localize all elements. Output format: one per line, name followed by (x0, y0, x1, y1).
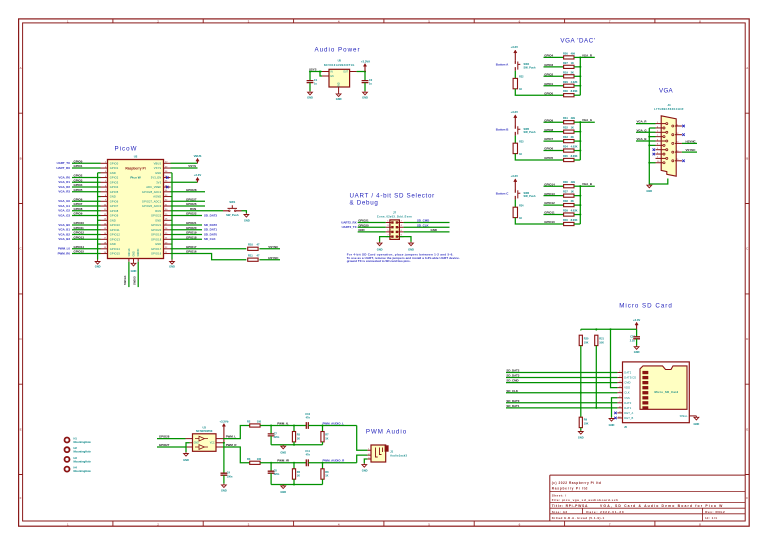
net label GPIO10 (74, 221, 85, 225)
wire tap R7 (322, 426, 324, 432)
wire PWM_AUDIO_L to jack (357, 426, 368, 451)
module U2 Raspberry Pi Pico W body (108, 160, 164, 259)
svg-text:GPIO0: GPIO0 (110, 161, 119, 165)
svg-text:SD_DAT3: SD_DAT3 (506, 374, 519, 378)
svg-text:GPIO9: GPIO9 (74, 212, 83, 216)
regulator U5 pin stubs (322, 72, 357, 93)
title block size date rev (552, 510, 568, 514)
net label GPIO28 (159, 435, 170, 439)
net label SD_CMD (506, 379, 518, 383)
module U2 bottom debug pins SWCLK GND SWDIO (129, 248, 140, 262)
svg-text:E: E (20, 427, 22, 431)
resistor R11 (248, 258, 258, 261)
wire GPIO28 (171, 191, 206, 193)
svg-text:VGA_R1: VGA_R1 (58, 180, 70, 184)
svg-text:VBUS: VBUS (154, 161, 162, 165)
svg-text:SD_DAT1: SD_DAT1 (506, 404, 519, 408)
resistor R26 reference and value (563, 51, 568, 55)
junction R7 (321, 424, 323, 426)
svg-text:VGA_B: VGA_B (637, 137, 647, 141)
hierarchical label VGA_R3 (58, 190, 70, 194)
wire resistor R33 to output bus (574, 140, 580, 142)
svg-text:GND: GND (694, 422, 700, 426)
svg-text:GPIO21: GPIO21 (151, 223, 162, 227)
ground symbol at SW1 (244, 213, 249, 217)
svg-text:PWM_L: PWM_L (226, 435, 237, 439)
svg-text:GND: GND (194, 443, 199, 445)
connector J4 value (654, 108, 684, 111)
junction ground bus (648, 136, 650, 138)
svg-text:GPIO4: GPIO4 (544, 54, 553, 58)
wire R20 to CLK row and R9 (580, 346, 582, 418)
svg-text:2.2u: 2.2u (630, 339, 635, 342)
svg-text:GPIO17: GPIO17 (151, 247, 162, 251)
svg-text:GPIO5: GPIO5 (74, 188, 83, 192)
svg-text:499: 499 (571, 51, 576, 55)
section title VGA (659, 88, 674, 95)
svg-text:H4: H4 (74, 466, 78, 470)
svg-text:GND: GND (339, 82, 341, 87)
wire SW1 to ground (242, 211, 247, 214)
ground label (646, 189, 652, 193)
ground symbol below left bus (95, 260, 100, 265)
resistor R5 (292, 432, 295, 442)
wire R8 to rail (322, 479, 324, 484)
svg-text:VGA_R0: VGA_R0 (58, 175, 70, 179)
resistor R26 (564, 56, 574, 59)
hierarchical label VGA_B3 (58, 237, 70, 241)
audio jack J1 pin stubs (367, 449, 371, 460)
svg-text:4.02K: 4.02K (571, 209, 578, 213)
ground symbol J7 right (409, 242, 414, 246)
net label GPIO5 (74, 188, 83, 192)
resistor R8 (321, 469, 324, 479)
svg-text:SD_CLK: SD_CLK (417, 223, 429, 227)
svg-text:R30: R30 (563, 89, 568, 93)
svg-text:1K: 1K (325, 475, 328, 478)
micro SD card contact pads (642, 371, 648, 410)
resistor R35 reference and value (563, 154, 568, 158)
svg-text:VGA_B1: VGA_B1 (58, 228, 70, 232)
wire EN loop (320, 72, 322, 77)
svg-text:VGA_B0: VGA_B0 (58, 223, 70, 227)
resistor R31 (564, 121, 574, 124)
buffer U3 gate symbols (195, 436, 208, 449)
svg-text:GND: GND (362, 469, 368, 473)
section title PicoW (115, 146, 138, 153)
svg-text:RUN: RUN (190, 207, 196, 211)
module U2 value Pico W (130, 176, 140, 180)
mounting hole H2 labels (74, 446, 78, 450)
svg-text:GPIO4: GPIO4 (74, 183, 83, 187)
wire resistor R34 to output bus (574, 150, 580, 152)
wire GPIO21 (171, 224, 203, 226)
svg-text:H1: H1 (74, 436, 78, 440)
net label VGA_R (582, 53, 593, 57)
net label GPIO12 (544, 201, 555, 205)
net label VSYS (309, 67, 317, 71)
svg-text:R34: R34 (563, 145, 568, 149)
svg-text:GPIO3: GPIO3 (110, 180, 119, 184)
junction ladder bus (579, 140, 581, 142)
svg-text:+3.3V: +3.3V (633, 318, 641, 322)
net label GPIO2 (74, 174, 83, 178)
resistor R32 reference and value (563, 126, 568, 130)
svg-text:J7: J7 (393, 211, 396, 215)
net label GPIO13 (544, 192, 555, 196)
hierarchical label PWM_R0 (58, 251, 71, 255)
svg-text:GND: GND (358, 228, 364, 232)
connector J5 micro SD body (623, 362, 690, 423)
svg-text:GPIO16: GPIO16 (186, 250, 197, 254)
svg-text:SWDIO: SWDIO (132, 276, 136, 285)
regulator U5 reference (338, 59, 342, 63)
wire C10 to output (308, 425, 356, 427)
net label SD_DAT1 (506, 404, 519, 408)
connector J4 right pin stubs and circles (672, 124, 682, 162)
net label GPIO3 (544, 63, 553, 67)
svg-text:GPIO9: GPIO9 (110, 214, 119, 218)
net label GPIO10 (544, 220, 555, 224)
ground label (244, 219, 250, 223)
svg-text:VDD: VDD (624, 386, 630, 390)
power symbol +3.3V button B (514, 115, 517, 126)
wire VGA_R to J4 pin 1 (636, 123, 656, 125)
junction bus top (579, 185, 581, 187)
wire R5 to rail (293, 442, 295, 445)
svg-text:HSYNC: HSYNC (686, 140, 697, 144)
svg-text:J4: J4 (668, 103, 671, 107)
svg-text:1K: 1K (519, 88, 522, 91)
net label GPIO8 (544, 128, 553, 132)
svg-text:Title: RPi-PWSA: Title: RPi-PWSA (552, 504, 588, 508)
ground label (362, 96, 368, 100)
resistor R2 (250, 424, 260, 427)
wire GPIO20 (171, 229, 203, 231)
svg-text:GPIO5: GPIO5 (544, 156, 553, 160)
wire GPIO1 to resistor R29 (544, 85, 564, 87)
svg-text:DET_A: DET_A (624, 411, 633, 415)
svg-text:PWM_R0: PWM_R0 (58, 251, 71, 255)
wire net GPIO6 to U2 pin 9 (72, 200, 101, 202)
no-connect J5 DET_B (614, 417, 617, 420)
switch SW5 reference and value (524, 127, 530, 131)
ground symbol J7 left (377, 242, 382, 246)
wire switch to resistor R23 (514, 136, 516, 144)
note text about SD jumpers (347, 253, 454, 257)
switch SW4 SW_Push button A (515, 61, 520, 71)
wire GPIO7 to resistor R33 (544, 140, 564, 142)
ground label (280, 450, 286, 454)
svg-text:GPIO12: GPIO12 (110, 233, 121, 237)
svg-text:GPIO8: GPIO8 (544, 128, 553, 132)
svg-text:HSYNC: HSYNC (268, 256, 279, 260)
ground label (336, 97, 342, 101)
ground symbol below right bus (170, 260, 175, 265)
svg-text:GPIO3: GPIO3 (544, 63, 553, 67)
svg-text:GND: GND (634, 350, 640, 354)
svg-text:PWM_L0: PWM_L0 (58, 247, 70, 251)
ladder output bus wire (580, 122, 595, 160)
svg-text:R2: R2 (247, 420, 251, 424)
svg-text:GPIO20: GPIO20 (186, 226, 197, 230)
wire GPIO2 to resistor R19 (544, 75, 564, 77)
wire R7 to rail (322, 442, 324, 445)
switch SW1 value SW_Push (226, 213, 239, 217)
resistor R32 (564, 130, 574, 133)
svg-text:GND: GND (431, 228, 437, 232)
wire R6 to rail (293, 479, 295, 484)
wire SD_DAT3 to J5 (506, 377, 617, 379)
svg-text:PWM_R: PWM_R (226, 443, 238, 447)
connector J5 reference (624, 425, 627, 429)
svg-text:GPIO7: GPIO7 (544, 137, 553, 141)
svg-text:GPIO10: GPIO10 (110, 223, 121, 227)
wire GPIO6 to resistor R34 (544, 150, 564, 152)
wire GPIO14 to resistor R36 (544, 185, 564, 187)
resistor R30 (564, 94, 574, 97)
wire GPIO19 (171, 234, 203, 236)
svg-text:GND: GND (110, 195, 116, 199)
junction rail (293, 444, 295, 446)
label Button A (496, 63, 509, 67)
audio jack J1 body (371, 445, 389, 462)
svg-text:GND: GND (183, 458, 189, 462)
junction ladder bus (579, 214, 581, 216)
wire resistor R19 to output bus (574, 75, 580, 77)
power symbol +3.3VA (363, 64, 366, 72)
svg-text:SWCLK: SWCLK (123, 275, 127, 285)
hierarchical label VGA_R1 (58, 180, 70, 184)
net label GPIO16 (186, 250, 197, 254)
wire J7 pin8 to ground (399, 237, 411, 242)
wire tap R8 (322, 463, 324, 469)
svg-text:1K: 1K (297, 437, 300, 440)
title block title text (552, 504, 588, 508)
audio jack J1 value AudioJack3 (390, 454, 407, 458)
svg-text:DET_B: DET_B (624, 416, 633, 420)
svg-text:AGND: AGND (153, 195, 161, 199)
hierarchical label VGA_G1 (58, 204, 70, 208)
svg-text:8.06K: 8.06K (571, 89, 578, 93)
svg-text:SD_CMD: SD_CMD (506, 379, 518, 383)
svg-text:R38: R38 (563, 199, 568, 203)
wire GPIO26 (171, 205, 206, 207)
resistor R39 (564, 213, 574, 216)
net label PWM_R (226, 443, 238, 447)
wire SD_DAT0 to J5 (506, 402, 617, 404)
svg-text:R3: R3 (247, 457, 251, 461)
svg-text:& Debug: & Debug (350, 200, 379, 207)
svg-text:GPIO20: GPIO20 (358, 223, 369, 227)
svg-text:2K: 2K (571, 70, 574, 74)
net label GPIO1 (74, 164, 83, 168)
svg-text:GPIO15: GPIO15 (110, 252, 121, 256)
hierarchical label VGA_R0 (58, 175, 70, 179)
svg-text:+3.3V: +3.3V (511, 45, 519, 49)
no-connect ADC_VREF (166, 186, 169, 189)
connector J4 left pin stubs and circles (656, 122, 668, 164)
net label PWM_fL (277, 421, 289, 425)
ladder output bus wire (580, 186, 595, 224)
wire resistor R37 to output bus (574, 195, 580, 197)
svg-text:SWCLK: SWCLK (129, 248, 131, 257)
svg-text:VSYNC: VSYNC (686, 148, 697, 152)
svg-text:1K: 1K (571, 61, 574, 65)
svg-text:GPIO27: GPIO27 (186, 197, 197, 201)
svg-text:GPIO13: GPIO13 (110, 237, 121, 241)
no-connect J4 pin 15 (682, 160, 685, 163)
wire VSYNC from J4 pin 14 (682, 151, 697, 153)
svg-text:10K: 10K (584, 422, 589, 425)
resistor R21 (595, 335, 598, 345)
wire GND pin to left ground bus (98, 172, 101, 174)
net label GPIO20 (186, 226, 197, 230)
junction ladder bus (579, 150, 581, 152)
left ground bus wire (97, 173, 99, 260)
svg-text:Micro SD Card: Micro SD Card (619, 303, 673, 310)
svg-text:C1: C1 (314, 78, 318, 82)
net label SD_DAT0 (506, 399, 519, 403)
wire tap C7 (270, 426, 272, 434)
net label GPIO21 (358, 219, 369, 223)
wire jack sleeve to ground (364, 459, 367, 463)
wire PWM_R from U3 (223, 447, 250, 463)
net label VGA_G (582, 118, 593, 122)
net label GPIO21 (186, 221, 197, 225)
svg-text:PicoW: PicoW (115, 146, 138, 153)
resistor R38 (564, 204, 574, 207)
wire GPIO12 to resistor R38 (544, 204, 564, 206)
svg-text:PWM_AUDIO_R: PWM_AUDIO_R (323, 459, 346, 463)
svg-text:499: 499 (571, 116, 576, 120)
svg-text:VGA_R: VGA_R (582, 53, 593, 57)
svg-text:R27: R27 (563, 61, 568, 65)
section title VGA DAC (560, 38, 595, 45)
wire GPIO22 (171, 215, 203, 217)
svg-text:VGA_B3: VGA_B3 (58, 237, 70, 241)
svg-text:GND: GND (221, 489, 227, 493)
net label GPIO6 (544, 147, 553, 151)
svg-text:U5: U5 (338, 59, 342, 63)
regulator U5 pin names (331, 72, 349, 88)
power symbol VBUS (196, 158, 199, 163)
svg-text:GND: GND (336, 97, 342, 101)
wire C1 to ground (309, 83, 311, 91)
svg-text:VGA_R3: VGA_R3 (58, 190, 70, 194)
capacitor C17 (633, 337, 640, 339)
resistor R7 (321, 432, 324, 442)
svg-text:H2: H2 (74, 446, 78, 450)
svg-text:1K: 1K (571, 190, 574, 194)
junction rail (293, 483, 295, 485)
svg-text:2K: 2K (571, 135, 574, 139)
resistor R10 (248, 247, 258, 250)
net label GPIO14 (544, 182, 555, 186)
wire resistor R40 to output bus (574, 223, 580, 225)
wire resistor R24 to ladder row (515, 218, 563, 224)
wire net GPIO15 to U2 pin 20 (72, 253, 101, 255)
svg-text:GPIO9: GPIO9 (544, 118, 553, 122)
svg-text:GPIO27_ADC1: GPIO27_ADC1 (142, 199, 162, 203)
junction ladder bus (579, 131, 581, 133)
resistor R34 (564, 149, 574, 152)
buffer U3 value (196, 430, 213, 433)
wire 3V3 out to power symbol (171, 181, 198, 183)
svg-text:Sheet: /: Sheet: / (552, 493, 567, 497)
ladder output bus wire (580, 57, 595, 95)
svg-text:GND: GND (408, 248, 414, 252)
svg-text:SW_Push: SW_Push (524, 194, 536, 198)
resistor R37 (564, 194, 574, 197)
wire GND pin to left ground bus (98, 243, 101, 245)
net label GPIO9 (544, 118, 553, 122)
connector J4 reference (668, 103, 671, 107)
svg-text:VGA_G3: VGA_G3 (58, 213, 70, 217)
svg-text:GPIO22: GPIO22 (186, 212, 197, 216)
svg-text:PWM_fL: PWM_fL (277, 421, 289, 425)
net label GPIO18 (186, 235, 197, 239)
svg-text:F: F (20, 496, 22, 500)
svg-text:47: 47 (257, 243, 260, 247)
wire +3.3V to VDD pin (611, 329, 618, 387)
svg-text:+3.3V: +3.3V (194, 173, 202, 177)
mounting hole H3 labels (74, 456, 78, 460)
mounting hole H2 (65, 447, 70, 452)
wire GPIO17 to resistor R10 (171, 248, 247, 250)
net label GPIO12 (74, 231, 85, 235)
hierarchical label UART_RX (56, 166, 70, 170)
svg-text:GPIO2: GPIO2 (110, 176, 119, 180)
svg-text:VGA 'DAC': VGA 'DAC' (560, 38, 595, 45)
resistor R33 (564, 140, 574, 143)
resistor R20 (579, 335, 582, 345)
svg-text:SD_CLK: SD_CLK (506, 389, 518, 393)
wire resistor R35 to output bus (574, 159, 580, 161)
svg-text:GPIO21: GPIO21 (186, 221, 197, 225)
wire C17 to ground (636, 339, 638, 346)
junction bus top (579, 56, 581, 58)
wire GPIO3 to resistor R27 (544, 66, 564, 68)
svg-text:GND: GND (131, 269, 137, 273)
connector J5 shell pin (680, 415, 697, 418)
svg-text:GND: GND (110, 171, 116, 175)
wire C2 to ground (364, 83, 366, 91)
net label GPIO11 (74, 226, 85, 230)
title block kicad id (552, 516, 605, 520)
ground symbol C17 (634, 346, 639, 350)
no-connect J4 pin 9 (653, 153, 656, 156)
wire SD_DAT2 to J5 (506, 372, 617, 374)
wire VCC to capacitor C4 (223, 443, 225, 473)
svg-text:GPIO18: GPIO18 (151, 237, 162, 241)
wire U5 output (357, 71, 365, 73)
hierarchical label UART_TX (57, 161, 70, 165)
svg-text:VGA_G: VGA_G (582, 118, 593, 122)
resistor R40 (564, 222, 574, 225)
svg-text:SW1: SW1 (229, 200, 235, 204)
no-connect J4 pin 11 (682, 125, 685, 128)
regulator U5 value (324, 64, 355, 67)
svg-text:1u: 1u (369, 81, 372, 85)
wire C7 to rail (270, 436, 272, 445)
no-connect J4 pin 12 (682, 133, 685, 136)
hierarchical label VGA_G3 (58, 213, 70, 217)
net label GPIO28 (186, 188, 197, 192)
wire PWM_AUDIO_R to jack (357, 455, 368, 463)
connector J7 pin pads and stubs (386, 221, 404, 238)
wire R11 to HSYNC (259, 259, 280, 261)
